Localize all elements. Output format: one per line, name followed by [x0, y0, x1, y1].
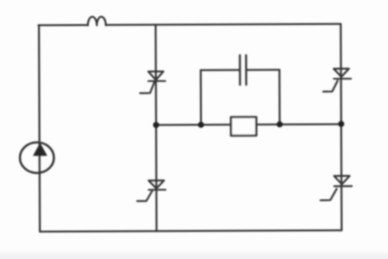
inductor L1 — [88, 17, 106, 26]
wire: capacitor right lead — [247, 69, 280, 71]
thyristor V2 (bottom of middle leg) — [137, 180, 166, 201]
current source arrow — [33, 143, 46, 155]
wire: snubber left vertical — [200, 70, 202, 125]
node: snubber right junction — [277, 121, 283, 127]
node: right-leg / load junction — [338, 121, 344, 127]
wire: bottom — [40, 230, 342, 231]
node: mid-leg / load junction — [153, 122, 159, 128]
node: snubber left junction — [198, 122, 204, 128]
wire: left leg (through current source) — [38, 25, 41, 231]
capacitor C plates — [239, 55, 241, 85]
bottom grey strip — [0, 251, 388, 259]
wire: top left segment (left leg to inductor) — [38, 24, 87, 26]
wire: snubber right vertical — [278, 70, 280, 125]
wire: middle leg — [155, 25, 158, 231]
thyristor V3 (top of right leg) — [323, 69, 351, 92]
wire: capacitor left lead — [201, 69, 239, 71]
resistor R (box) — [231, 117, 256, 136]
wire: top right segment (inductor to right leg) — [106, 24, 341, 25]
thyristor V1 (top of middle leg) — [140, 71, 165, 93]
wire: middle horizontal (load branch) — [156, 123, 341, 126]
wire: right leg — [340, 24, 343, 230]
current source I1 — [20, 142, 54, 173]
thyristor V4 (bottom of right leg) — [320, 176, 352, 200]
